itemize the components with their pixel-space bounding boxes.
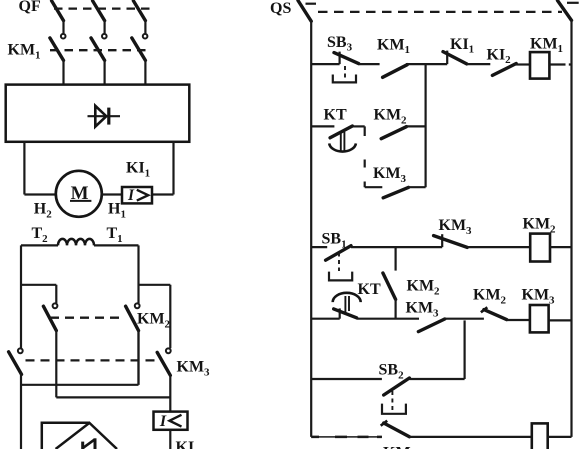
pushbutton SB3 normally closed: [333, 52, 359, 83]
svg-text:KT: KT: [358, 281, 381, 298]
contact KM1 normally open: [383, 65, 408, 78]
time relay contact KT delayed open: [333, 293, 361, 319]
row3 wire KM3 to coil: [467, 246, 530, 248]
coil KM1: [530, 52, 549, 79]
branch wire to KM2 left contact: [21, 285, 56, 303]
row1 wire bus to SB3: [311, 63, 339, 65]
contact KM3 row3 normally closed: [434, 234, 468, 247]
row4 wire coil to bus: [549, 319, 572, 321]
svg-text:KI1: KI1: [126, 160, 150, 180]
svg-text:KM1: KM1: [377, 36, 410, 56]
bridge diode glyph: [83, 438, 95, 449]
svg-text:T2: T2: [32, 225, 49, 245]
QF linkage dashed line: [54, 7, 150, 9]
svg-text:KM3: KM3: [373, 165, 407, 185]
svg-text:KM3: KM3: [177, 359, 211, 379]
row3 wire SB1 to KM3: [351, 246, 442, 248]
svg-text:KM1: KM1: [530, 35, 563, 55]
row3 wire bus to SB1: [311, 246, 327, 248]
row1 wire KI1 to KI2: [467, 63, 491, 65]
bridge rectifier box corner: [42, 423, 90, 449]
KM3 branch wire right: [407, 186, 425, 188]
row5 wire bus to SB2: [311, 378, 382, 380]
svg-text:KM1: KM1: [8, 42, 41, 62]
pushbutton SB1 normally open: [326, 246, 353, 281]
svg-text:I: I: [159, 413, 167, 430]
time relay contact KT delayed close: [329, 126, 356, 152]
pushbutton SB2 normally open: [382, 378, 409, 414]
coil bottom cropped: [532, 423, 548, 449]
QS linkage dashed line: [318, 11, 562, 13]
row4 wire bus to KT2: [311, 318, 340, 320]
right vertical wire from T1: [137, 245, 139, 303]
row4 wire KM3 to KM2: [444, 318, 484, 320]
svg-text:KM2: KM2: [407, 278, 441, 298]
contact KM3 branch normally open: [383, 187, 408, 197]
row1 wire KM1 to KI1: [406, 63, 447, 65]
row5 wire SB2 to branch: [409, 378, 464, 380]
svg-text:KM3: KM3: [439, 217, 473, 237]
row4 wire KT2 to KM3: [357, 318, 419, 320]
cross wire lower B: [56, 396, 170, 398]
svg-text:KT: KT: [324, 107, 347, 124]
svg-text:SB3: SB3: [327, 34, 353, 54]
svg-text:QF: QF: [19, 0, 41, 15]
row3 wire coil to bus: [550, 246, 572, 248]
switch QS left pole: [298, 1, 316, 22]
svg-text:H2: H2: [34, 201, 52, 221]
contact KM2 row4 normally open: [481, 307, 507, 319]
svg-text:KI2: KI2: [176, 439, 201, 449]
wire junction to KM3 branch partially faded: [364, 126, 366, 187]
node junction vertical wire: [425, 64, 427, 187]
row1 wire coil to bus: [549, 63, 571, 65]
svg-text:KM2: KM2: [374, 107, 408, 127]
contact KM3 row4 normally open: [418, 319, 444, 332]
contact KI2 normally open: [492, 64, 516, 76]
branch wire to KM3 right contact: [139, 285, 171, 349]
row1 wire KI2 to coil: [515, 63, 530, 65]
wire motor to KI1: [102, 193, 122, 195]
contact KM2 row2 normally open: [381, 127, 406, 139]
svg-text:KM2: KM2: [473, 287, 507, 307]
svg-text:QS: QS: [270, 0, 291, 17]
contact KM2 vertical normally open: [383, 273, 396, 319]
row2 wire KM2 to node: [405, 125, 425, 127]
svg-text:KI1: KI1: [450, 36, 474, 56]
svg-text:KM4: KM4: [383, 445, 417, 449]
circuit breaker QF pole 3: [133, 1, 145, 33]
circuit breaker QF pole 1: [52, 1, 64, 33]
current relay KI2 coil box I<: [154, 412, 188, 430]
cross wire lower A: [21, 330, 139, 385]
right bus wire: [570, 19, 572, 437]
contactor contact KM3 left pole: [9, 348, 23, 449]
current relay KI1 coil box I>: [122, 187, 152, 204]
branch wire down to KM2 vertical contact: [395, 247, 397, 271]
svg-text:KI2: KI2: [487, 46, 512, 66]
row2 wire bus to KT: [311, 125, 334, 127]
svg-text:KM3: KM3: [406, 300, 440, 320]
coil KM3: [530, 305, 549, 332]
KM2 linkage dashed line: [50, 317, 125, 319]
svg-text:SB2: SB2: [379, 362, 405, 382]
contactor KM1 pole 3: [132, 34, 148, 86]
row6 wire bus to contact: [311, 436, 382, 438]
contactor KM1 pole 1: [50, 34, 66, 86]
contactor contact KM2 left pole: [43, 303, 57, 397]
switch QS right pole: [558, 1, 579, 21]
left bus wire: [310, 20, 312, 437]
left vertical wire from T2: [20, 245, 22, 348]
wire rectifier to motor left: [24, 141, 56, 195]
svg-text:KM2: KM2: [523, 216, 557, 236]
svg-text:T1: T1: [107, 225, 123, 245]
contactor contact KM3 right pole: [157, 348, 171, 411]
row2 wire KT to junction: [352, 125, 364, 127]
circuit breaker QF pole 2: [93, 1, 105, 33]
contactor KM1 pole 2: [91, 34, 107, 86]
row6 wire contact to coil: [409, 436, 531, 438]
svg-text:I: I: [127, 187, 135, 204]
row6 wire coil to bus: [548, 436, 572, 438]
rectifier box: [6, 85, 190, 142]
svg-text:KM3: KM3: [522, 287, 556, 307]
contact KI1 normally closed: [443, 51, 467, 65]
KM1 linkage dashed line: [50, 49, 150, 51]
wire rectifier to KI1 right: [152, 141, 174, 195]
bridge rectifier diamond top: [56, 423, 117, 449]
KM3 branch wire left: [365, 186, 383, 188]
svg-text:SB1: SB1: [322, 231, 347, 251]
contactor contact KM2 right pole: [126, 303, 140, 384]
contact bottom row: [381, 421, 410, 437]
row4 wire KM2 to coil: [507, 319, 530, 321]
motor M: [56, 171, 102, 217]
thyristor symbol inside rectifier box: [88, 106, 121, 127]
wire KI2 to bottom edge: [169, 430, 171, 449]
svg-text:KM2: KM2: [137, 311, 171, 331]
branch wire row4 to row5: [464, 320, 466, 379]
field winding T2-T1 inductor: [21, 239, 139, 246]
KM3 linkage dashed line: [26, 359, 157, 361]
coil KM2: [530, 234, 550, 262]
row1 wire SB3 to KM1: [359, 63, 380, 65]
